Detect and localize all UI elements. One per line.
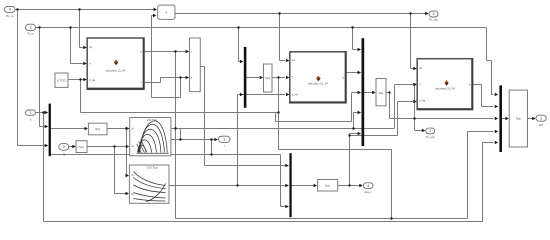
svg-text:w: w <box>469 84 471 87</box>
svg-text:eta_c: eta_c <box>365 190 373 194</box>
svg-text:2-D T(u): 2-D T(u) <box>147 166 157 170</box>
svg-text:3: 3 <box>30 26 32 30</box>
svg-text:s_Ha: s_Ha <box>292 93 299 97</box>
svg-text:Wc: Wc <box>539 123 544 127</box>
svg-text:f(u): f(u) <box>325 184 330 188</box>
svg-text:k_Ha: k_Ha <box>89 78 96 82</box>
svg-text:calculate_02_04: calculate_02_04 <box>435 86 455 90</box>
svg-text:w: w <box>342 76 344 79</box>
svg-text:Pc_out: Pc_out <box>429 18 438 22</box>
svg-text:f(u): f(u) <box>516 116 521 120</box>
svg-text:1: 1 <box>540 117 542 121</box>
svg-text:f(u): f(u) <box>79 145 84 149</box>
svg-text:Pc_in: Pc_in <box>6 14 14 18</box>
svg-text:calculate_02_04: calculate_02_04 <box>106 68 126 72</box>
svg-text:f(u): f(u) <box>379 91 384 95</box>
svg-text:4: 4 <box>367 184 369 188</box>
svg-text:Tc_in: Tc_in <box>27 32 34 36</box>
svg-text:r: r <box>224 144 225 148</box>
svg-text:Tc_out: Tc_out <box>426 135 435 139</box>
svg-text:0.7172: 0.7172 <box>57 78 66 82</box>
svg-text:f(u): f(u) <box>266 76 271 80</box>
svg-text:1: 1 <box>30 111 32 115</box>
svg-text:1: 1 <box>429 129 431 133</box>
svg-text:2: 2 <box>63 145 65 149</box>
svg-text:f(u): f(u) <box>95 127 100 131</box>
svg-text:4: 4 <box>9 8 11 12</box>
svg-text:1: 1 <box>223 138 225 142</box>
svg-text:s_Ha: s_Ha <box>419 99 426 103</box>
svg-text:N: N <box>63 152 65 156</box>
svg-text:calculate_02_04: calculate_02_04 <box>308 81 328 85</box>
svg-text:w: w <box>140 51 142 54</box>
svg-text:2: 2 <box>433 12 435 16</box>
